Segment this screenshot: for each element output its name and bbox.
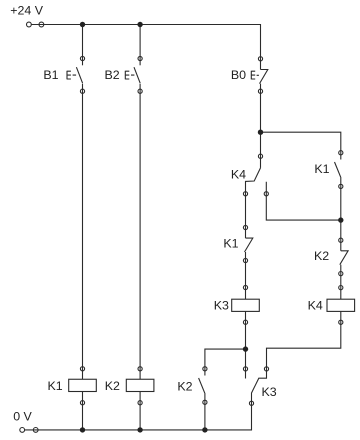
- svg-text:K4: K4: [308, 298, 323, 312]
- svg-text:K3: K3: [262, 385, 277, 399]
- svg-text:0 V: 0 V: [13, 409, 32, 423]
- svg-text:B2: B2: [104, 68, 119, 82]
- svg-text:K2: K2: [314, 249, 329, 263]
- svg-text:K4: K4: [231, 167, 246, 181]
- svg-text:K3: K3: [214, 298, 229, 312]
- svg-text:K2: K2: [105, 379, 120, 393]
- svg-text:B1: B1: [43, 68, 58, 82]
- svg-text:B0: B0: [231, 68, 246, 82]
- svg-text:K1: K1: [47, 379, 62, 393]
- svg-text:+24 V: +24 V: [10, 4, 43, 18]
- svg-text:K1: K1: [223, 237, 238, 251]
- svg-text:K1: K1: [314, 162, 329, 176]
- svg-text:K2: K2: [177, 379, 192, 393]
